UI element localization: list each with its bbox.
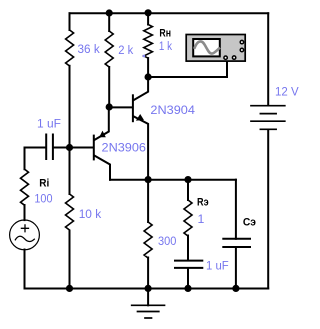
svg-text:1 uF: 1 uF [37,117,61,131]
svg-text:100: 100 [34,192,52,206]
svg-text:2N3904: 2N3904 [150,103,195,117]
svg-text:Rн: Rн [159,28,171,40]
svg-text:300: 300 [158,234,177,248]
svg-text:Rэ: Rэ [197,197,209,209]
svg-text:Ri: Ri [39,177,49,189]
svg-text:36 k: 36 k [78,42,101,56]
svg-text:1: 1 [198,212,205,226]
svg-text:12 V: 12 V [275,84,299,98]
svg-text:2 k: 2 k [118,43,134,57]
svg-text:Сэ: Сэ [243,216,256,228]
svg-text:2N3906: 2N3906 [102,141,147,155]
svg-text:1 uF: 1 uF [206,258,229,272]
svg-text:1 k: 1 k [159,39,173,53]
svg-text:10 k: 10 k [79,207,102,221]
